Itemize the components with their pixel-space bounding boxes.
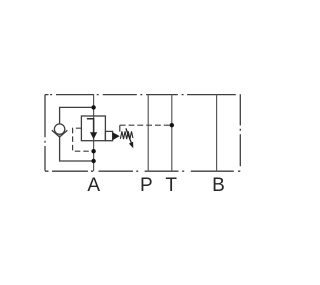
svg-text:B: B: [212, 175, 225, 196]
svg-text:P: P: [140, 175, 153, 196]
svg-text:T: T: [165, 175, 177, 196]
svg-text:A: A: [87, 175, 100, 196]
